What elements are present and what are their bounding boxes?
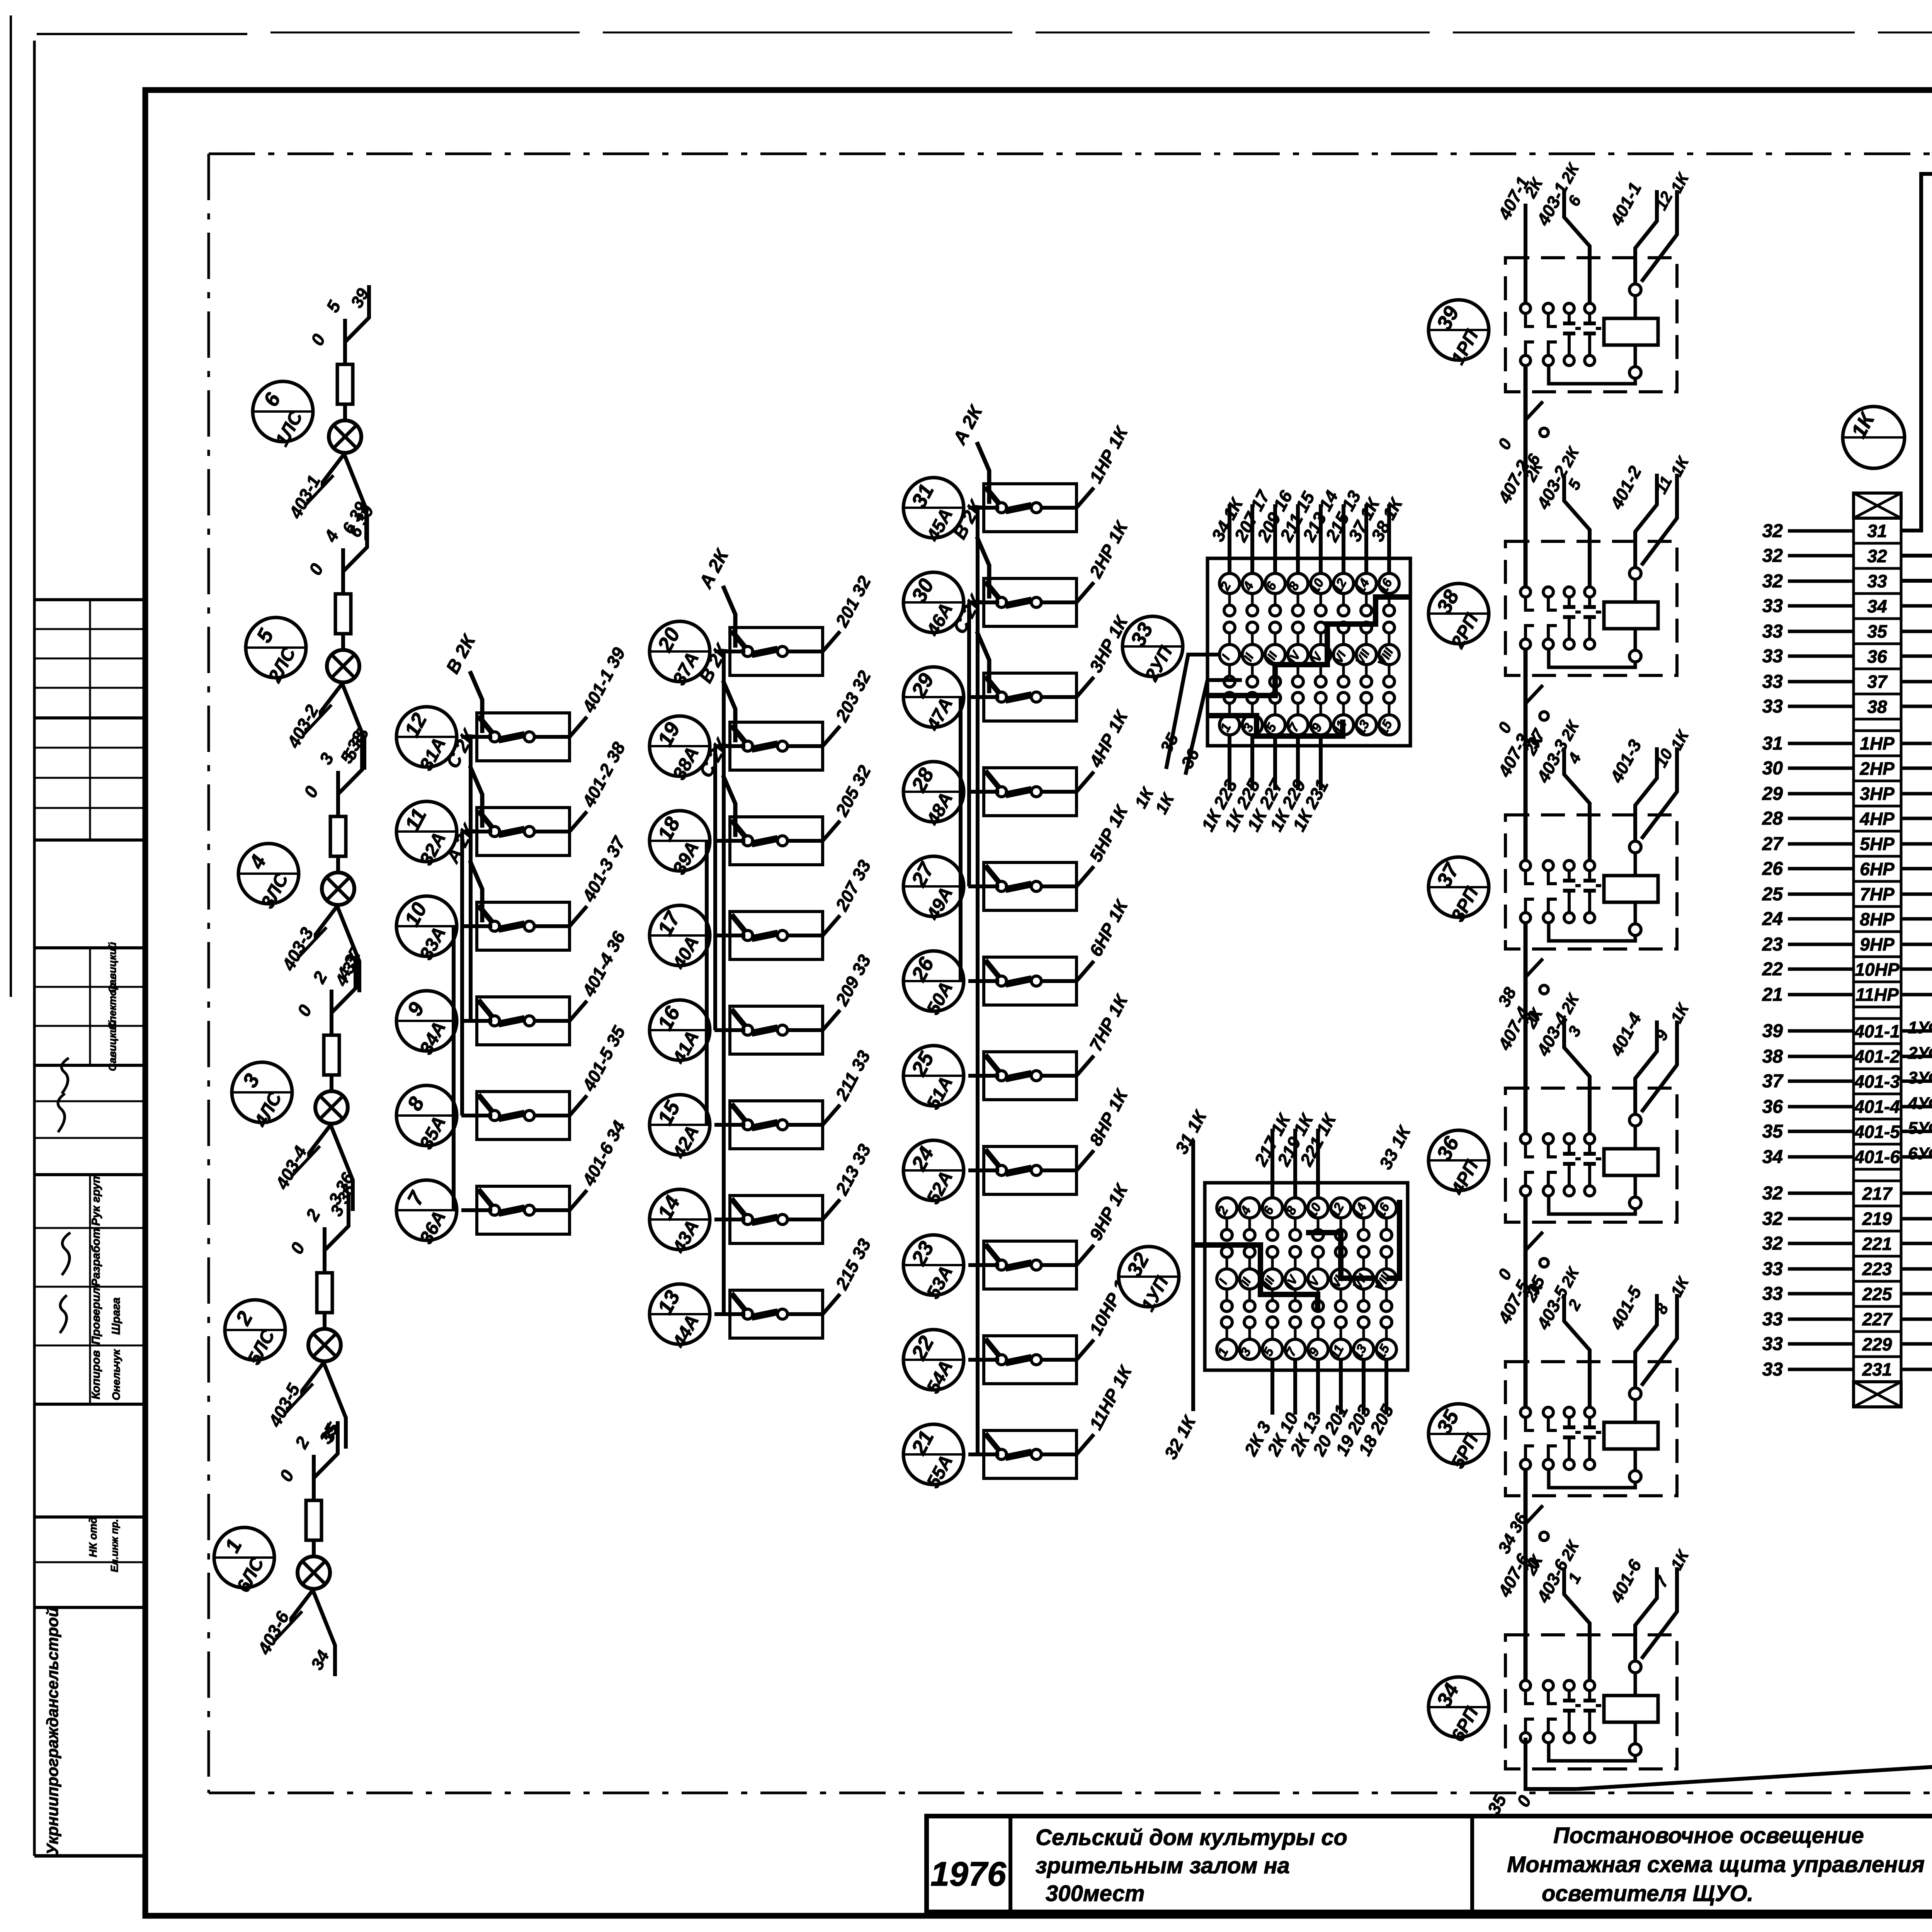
switch 14/43А [650,1189,710,1257]
lamp 403-6 [298,1556,330,1589]
switch throw contact [1031,1355,1041,1365]
panel top wire 221 1К [1316,1129,1320,1198]
switch pole contact [997,597,1007,607]
switch pole contact [743,1025,753,1035]
panel left wire 35 [1166,655,1219,769]
svg-text:34: 34 [1762,1147,1783,1167]
wire [705,841,709,1125]
wire [469,737,473,1021]
svg-text:2УФ: 2УФ [1908,1044,1932,1063]
svg-text:1НР: 1НР [1860,733,1895,753]
svg-text:401-6: 401-6 [1854,1147,1900,1167]
lamp 403-3 [322,872,354,905]
switch pole contact [490,1016,500,1026]
lead 38 [1788,1055,1854,1058]
lead 32 [1788,1192,1854,1195]
phase feed С 2К [723,775,735,837]
resistor 3ЛС chain [324,1035,339,1075]
svg-text:11НР: 11НР [1855,985,1899,1005]
panel top wire 213 14 [1319,504,1323,573]
switch pole contact [743,1120,753,1130]
svg-text:37: 37 [1762,1071,1784,1092]
inner schematic boundary (dash-dot) [209,154,1932,1793]
switch throw contact [777,646,787,656]
relay 35/5РП [1429,1264,1693,1496]
panel top wire 219 1К [1293,1129,1297,1198]
lead 22 [1788,968,1854,971]
panel top wire 209 16 [1273,504,1277,573]
switch 17/40А [650,905,710,973]
resistor 1ЛС chain [306,1500,321,1540]
switch 23/53А [903,1235,964,1302]
wire 18п to 1К:33 [1901,354,1932,581]
pilot lamp circuit 6/1ЛС [253,285,373,540]
panel bottom wire 19 203 [1362,1359,1366,1415]
svg-text:23: 23 [1762,934,1783,955]
switch 25/51А [903,1046,964,1113]
panel bottom wire 1К 225 [1250,735,1254,790]
wire 17п to 1К:32 [1901,263,1932,556]
relay interconnection wire [1524,1196,1528,1407]
svg-text:32: 32 [1762,521,1783,541]
svg-text:4УФ: 4УФ [1908,1094,1932,1113]
lead 33 [1788,1292,1854,1296]
switch throw contact [524,732,534,742]
svg-text:29: 29 [1762,784,1783,804]
wire 35 0 to bus [1526,1738,1577,1789]
switch throw contact [1031,1449,1041,1459]
svg-text:225: 225 [1862,1284,1893,1304]
switch 7/36А [396,1180,457,1247]
switch 16/41А [650,1000,710,1068]
lead 39 [1788,1029,1854,1033]
resistor 6ЛС chain [337,364,353,404]
svg-text:зрительным залом на: зрительным залом на [1036,1853,1290,1878]
svg-text:34: 34 [1867,596,1887,616]
wire 407-1 2К [1524,204,1527,303]
wire 31 1К / 32 1К [1191,1140,1195,1411]
svg-text:36: 36 [1867,646,1887,667]
svg-text:401-2: 401-2 [1854,1046,1900,1066]
connector panel 33/2УП [1122,486,1410,835]
svg-text:33: 33 [1762,672,1783,692]
panel contact col 6 [1331,1198,1351,1218]
svg-text:6УФ: 6УФ [1908,1144,1932,1163]
svg-text:36: 36 [1762,1097,1783,1117]
lamp 403-2 [327,650,359,682]
pilot lamp circuit 1/6ЛС [214,1421,342,1676]
wire 407-5 2К [1524,1308,1527,1407]
svg-text:33: 33 [1762,1309,1783,1330]
relay coil 39 [1604,318,1658,345]
panel bottom wire 20 201 [1339,1359,1343,1415]
panel contact col 7 [1354,1198,1374,1218]
switch 26/50А [903,951,964,1018]
lead 33 [1788,1318,1854,1321]
wire 407-4 2К [1524,1034,1527,1134]
svg-text:5НР: 5НР [1860,834,1895,854]
lead 23 [1788,943,1854,946]
resistor 2ЛС chain [317,1273,332,1313]
lead 24 [1788,917,1854,921]
svg-text:223: 223 [1862,1259,1892,1279]
switch pole contact [490,732,500,742]
panel bottom wire 2К 10 [1293,1359,1297,1415]
relay 36/4РП [1429,990,1693,1222]
svg-text:Рук груп: Рук груп [90,1176,102,1226]
terminal block 1К [1762,406,1932,1407]
resistor 5ЛС chain [335,594,351,634]
lead 27 [1788,842,1854,846]
panel bottom wire 2К 3 [1270,1359,1274,1415]
svg-text:НК отд: НК отд [87,1517,99,1557]
relay interconnection wire [1524,1469,1528,1680]
svg-text:Ел.инж пр.: Ел.инж пр. [109,1519,120,1572]
svg-text:8НР: 8НР [1860,909,1895,929]
panel contact col 6 [1333,573,1354,594]
panel top wire 34 1К [1228,504,1231,573]
switch pole contact [997,1165,1007,1175]
left stamp strip [34,41,145,1856]
switch throw contact [777,1214,787,1225]
panel contact col 7 [1356,573,1376,594]
relay coil 38 [1604,602,1658,629]
phase feed А 2К [470,861,482,922]
relay 39/1РП [1429,160,1693,392]
panel contact col 1 [1217,1198,1237,1218]
switch throw contact [1031,1165,1041,1175]
lead 37 [1788,1080,1854,1083]
lead 33 [1788,630,1854,633]
wire 403-1 6 2К [1564,190,1590,303]
lead 31 [1788,742,1854,745]
svg-text:Копиров: Копиров [90,1350,102,1399]
wire [959,697,963,981]
panel contact col 3 [1262,1198,1282,1218]
svg-text:231: 231 [1862,1359,1892,1379]
svg-text:33: 33 [1762,1259,1783,1279]
switch throw contact [524,827,534,837]
switch throw contact [524,1205,534,1215]
svg-text:219: 219 [1862,1209,1892,1229]
panel top wire 211 15 [1296,504,1300,573]
svg-text:32: 32 [1762,1233,1783,1254]
wire [713,746,717,1030]
svg-text:10НР: 10НР [1855,959,1899,980]
switch throw contact [1031,881,1041,891]
panel bottom wire 2К 13 [1316,1359,1320,1415]
svg-text:Постановочное освещение: Постановочное освещение [1553,1823,1864,1848]
lead 32 [1788,529,1854,533]
lead 32 [1788,1242,1854,1245]
switch pole contact [743,646,753,656]
relay 38/2РП [1429,443,1693,675]
lead 34 [1788,1155,1854,1159]
switch throw contact [1031,976,1041,986]
svg-text:Укрниипрограждансельстрой: Укрниипрограждансельстрой [43,1607,61,1855]
wire 403-3 4 2К [1564,747,1590,861]
switch pole contact [997,1449,1007,1459]
switch pole contact [997,1355,1007,1365]
svg-text:227: 227 [1862,1309,1893,1329]
wire [976,508,980,1454]
switch 18/39А [650,811,710,878]
switch throw contact [524,921,534,931]
switch pole contact [743,1309,753,1319]
svg-text:32: 32 [1762,1209,1783,1229]
panel top wire 37 1К [1364,504,1368,573]
switch 22/54А [903,1330,964,1397]
svg-text:1976: 1976 [930,1855,1007,1893]
panel bottom wire 1К 227 [1273,735,1277,790]
phase feed В 2К [470,671,482,733]
wire 401-1 12 1К [1635,190,1657,283]
lead 36 [1788,1105,1854,1109]
lead 33 [1788,1368,1854,1371]
switch 8/35А [396,1085,457,1153]
svg-text:3УФ: 3УФ [1908,1068,1932,1087]
switch 12/31А [396,707,457,774]
panel bottom wire 1К 231 [1319,735,1323,790]
switch pole contact [490,1205,500,1215]
wire 403-2 5 2К [1564,474,1590,587]
svg-text:Монтажная схема щита уп: Монтажная схема щита управления [1507,1852,1925,1877]
wire [452,926,456,1210]
wire 401-2 11 1К [1635,474,1657,567]
lead 21 [1788,993,1854,997]
svg-text:229: 229 [1862,1334,1892,1354]
phase feed С 2К [470,766,482,828]
svg-text:Онельчук: Онельчук [110,1349,122,1400]
wire 16п to 1К:31 [1901,174,1932,531]
svg-text:31: 31 [1867,521,1887,541]
switch pole contact [490,1111,500,1121]
pilot lamp circuit 3/4ЛС [232,943,366,1211]
switch pole contact [743,1214,753,1225]
switch pole contact [743,741,753,751]
switch 29/47А [903,667,964,735]
relay interconnection wire [1524,366,1528,587]
panel left wire 36 [1185,680,1242,775]
svg-text:33: 33 [1762,621,1783,642]
switch throw contact [524,1016,534,1026]
panel bottom wire 18 205 [1384,1359,1388,1415]
panel internal jumper [1207,597,1410,696]
wire 20п from 1К 401 cells [1901,1029,1932,1033]
relay 34/6РП [1429,1537,1693,1769]
switch 9/34А [396,991,457,1058]
wire [460,832,464,1116]
switch throw contact [1031,1071,1041,1081]
lead 33 [1788,1342,1854,1346]
svg-text:24: 24 [1762,909,1783,929]
wire 407-3 2К [1524,761,1527,861]
panel internal jumper [1207,716,1343,736]
lead 28 [1788,817,1854,820]
panel contact col 3 [1265,573,1285,594]
switch 30/46А [903,572,964,640]
svg-text:4НР: 4НР [1859,809,1895,829]
connector panel 32/1УП [1119,1110,1408,1459]
svg-text:37: 37 [1867,672,1888,692]
svg-text:Сельский дом культуры со: Сельский дом культуры со [1036,1825,1347,1850]
switch 24/52А [903,1140,964,1207]
panel internal jumper [1386,1200,1400,1278]
lead 33 [1788,705,1854,708]
relay interconnection wire [1524,923,1528,1134]
switch 28/48А [903,762,964,829]
switch pole contact [997,881,1007,891]
lead 32 [1788,1217,1854,1221]
svg-text:21: 21 [1762,985,1783,1005]
switch throw contact [777,836,787,846]
svg-text:221: 221 [1862,1234,1892,1254]
wire 407-6 2К [1524,1581,1527,1680]
svg-text:38: 38 [1762,1046,1783,1067]
svg-text:401-4: 401-4 [1854,1097,1900,1117]
wire 403-4 3 2К [1564,1020,1590,1134]
pilot lamp circuit 5/2ЛС [246,502,378,770]
switch pole contact [997,503,1007,513]
panel contact col 8 [1379,573,1399,594]
svg-text:300мест: 300мест [1046,1881,1145,1906]
switch pole contact [997,1260,1007,1270]
switch pole contact [997,787,1007,797]
svg-text:9НР: 9НР [1860,934,1895,954]
svg-text:7НР: 7НР [1860,884,1895,904]
switch pole contact [997,692,1007,702]
lead 26 [1788,867,1854,871]
switch 19/38А [650,716,710,783]
switch throw contact [1031,597,1041,607]
wire 401-4 9 1К [1635,1020,1657,1114]
svg-text:35: 35 [1762,1121,1784,1142]
svg-text:35: 35 [1867,621,1888,641]
switch throw contact [1031,1260,1041,1270]
svg-text:1УФ: 1УФ [1908,1018,1932,1037]
panel top wire 215 13 [1342,504,1345,573]
panel contact col 8 [1376,1198,1396,1218]
switch throw contact [777,1120,787,1130]
wire [967,602,971,886]
lamp 403-1 [329,420,361,453]
lead 33 [1788,680,1854,684]
relay coil 34 [1604,1696,1658,1722]
svg-text:27: 27 [1762,834,1784,854]
panel contact col 5 [1308,1198,1328,1218]
switch 27/49А [903,856,964,924]
panel contact col 5 [1311,573,1331,594]
lead 30 [1788,767,1854,770]
svg-text:30: 30 [1762,758,1783,779]
panel internal jumper [1193,1245,1318,1311]
panel contact col 2 [1240,1198,1260,1218]
lead 33 [1788,604,1854,608]
svg-text:401-5: 401-5 [1854,1122,1900,1142]
switch 11/32А [396,801,457,869]
switch throw contact [777,1309,787,1319]
svg-text:33: 33 [1762,646,1783,667]
phase feed В 2К [723,680,735,742]
svg-text:32: 32 [1762,1183,1783,1204]
switch 15/42А [650,1095,710,1162]
svg-text:32: 32 [1762,546,1783,566]
svg-text:3НР: 3НР [1860,784,1895,804]
panel contact col 4 [1288,573,1308,594]
wire 401-6 7 1К [1635,1567,1657,1660]
panel internal jumper [1306,1233,1378,1278]
relay coil 36 [1604,1149,1658,1175]
relay 37/3РП [1429,717,1693,949]
switch pole contact [490,921,500,931]
panel top wire 217 1К [1270,1129,1274,1198]
lead 33 [1788,655,1854,658]
wire 403-6 1 2К [1564,1567,1590,1680]
svg-text:осветителя ЩУО.: осветителя ЩУО. [1542,1881,1753,1906]
switch 20/37А [650,621,710,689]
relay coil 35 [1604,1422,1658,1449]
lead 32 [1788,554,1854,558]
wire 401-3 10 1К [1635,747,1657,840]
switch 21/55А [903,1424,964,1492]
svg-text:33: 33 [1762,1284,1783,1304]
svg-text:33: 33 [1762,596,1783,616]
switch pole contact [997,1071,1007,1081]
phase feed С 2К [977,631,989,693]
wire 403-5 2 2К [1564,1294,1590,1407]
relay coil 37 [1604,876,1658,902]
resistor 4ЛС chain [330,816,346,856]
svg-text:25: 25 [1762,884,1784,905]
svg-text:5УФ: 5УФ [1908,1119,1932,1138]
phase feed В 2К [977,537,989,599]
svg-text:217: 217 [1862,1184,1893,1204]
svg-text:31: 31 [1762,733,1783,754]
svg-text:Проверил: Проверил [90,1287,102,1345]
switch pole contact [743,930,753,940]
svg-text:39: 39 [1762,1021,1783,1041]
lead 32 [1788,580,1854,583]
phase feed А 2К [723,586,735,648]
svg-text:32: 32 [1867,546,1887,566]
panel contact col 2 [1242,573,1262,594]
panel contact col 1 [1219,573,1240,594]
switch pole contact [490,827,500,837]
svg-text:6НР: 6НР [1860,859,1895,879]
switch pole contact [997,976,1007,986]
svg-text:33: 33 [1762,1359,1783,1380]
lead 35 [1788,1130,1854,1133]
switch throw contact [1031,787,1041,797]
switch throw contact [1031,692,1041,702]
svg-text:32: 32 [1762,571,1783,592]
switch 10/33А [396,896,457,963]
switch throw contact [777,741,787,751]
svg-text:26: 26 [1762,859,1783,879]
panel bottom wire 1К 223 [1228,735,1231,790]
title block [927,1790,1932,1912]
svg-text:33: 33 [1762,696,1783,717]
wire 21п from 1К 217-231 cells [1901,1192,1932,1195]
lead 33 [1788,1267,1854,1271]
switch 31/45А [903,478,964,545]
lamp 403-4 [315,1091,348,1124]
lead 25 [1788,893,1854,896]
lead 29 [1788,792,1854,796]
svg-text:401-1: 401-1 [1854,1021,1900,1041]
switch throw contact [777,1025,787,1035]
wire 407-2 2К [1524,487,1527,587]
